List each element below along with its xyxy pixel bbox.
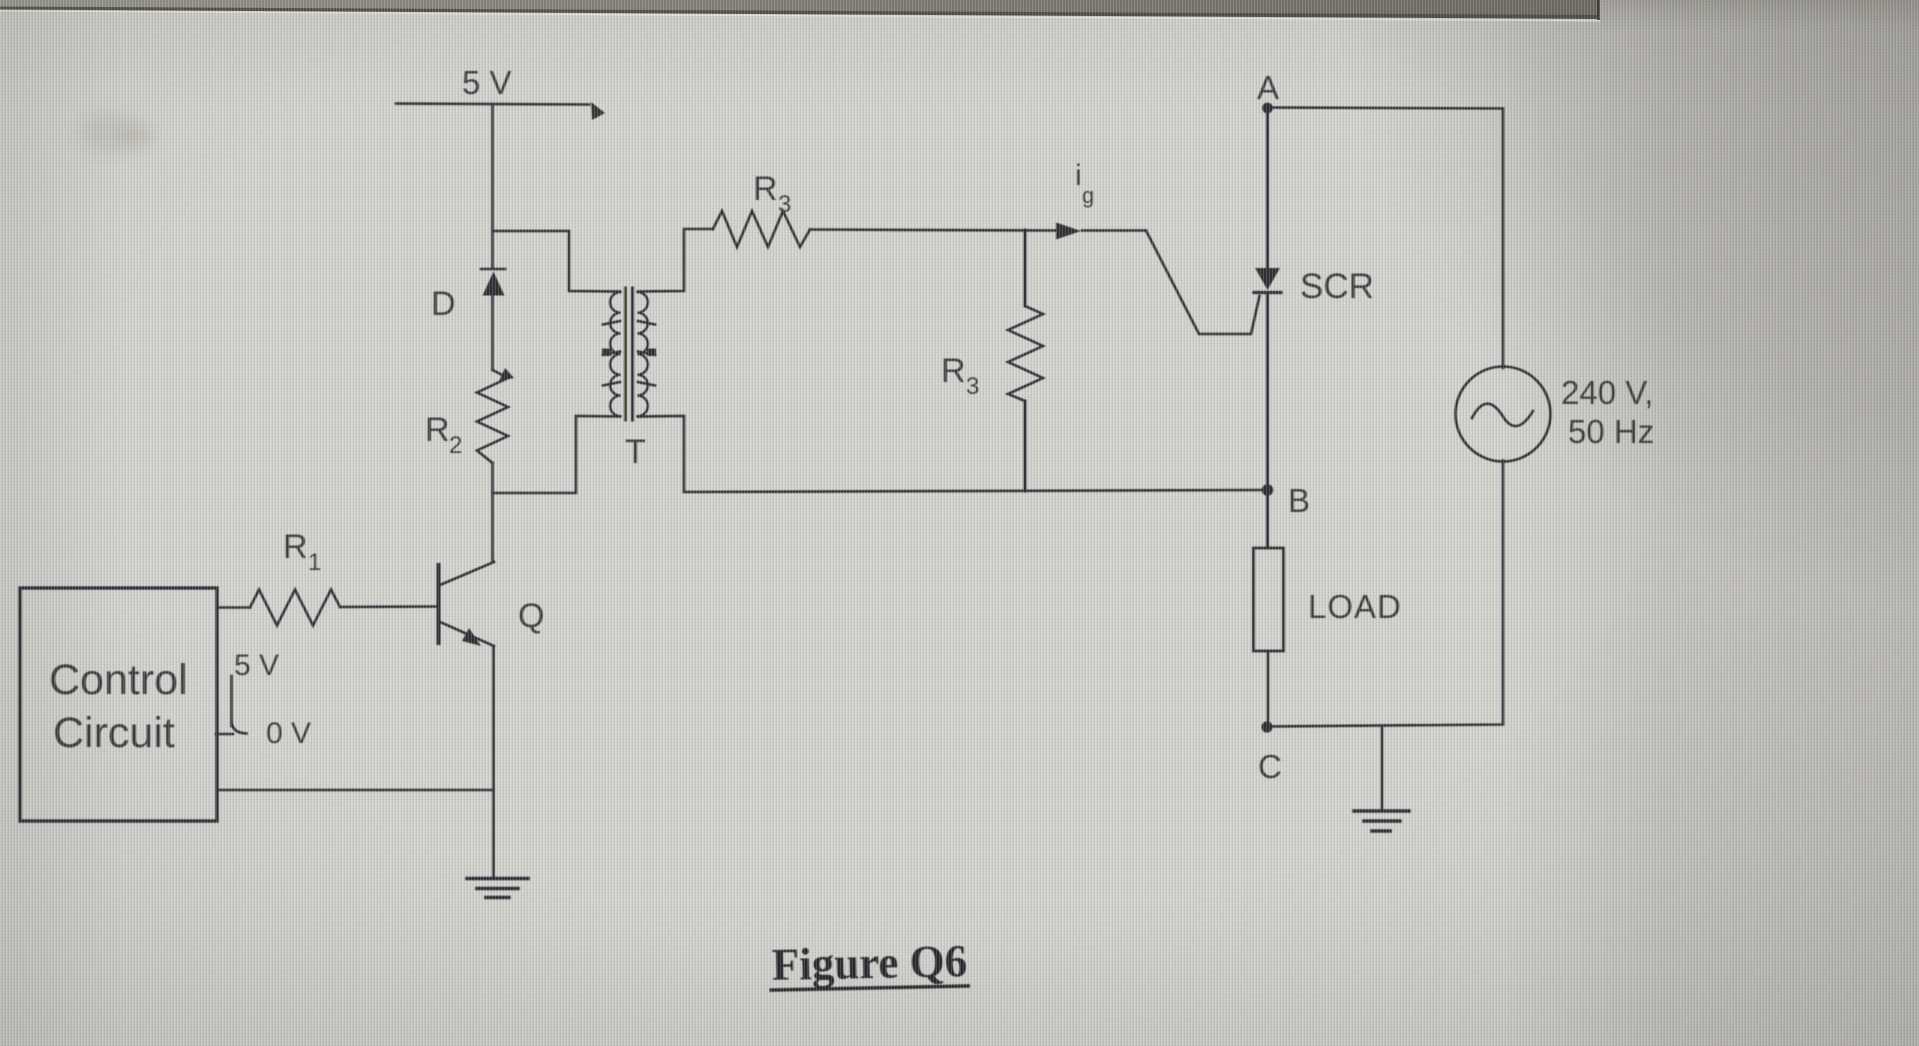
wire: source down and bottom rail to node C bbox=[1267, 461, 1503, 727]
svg-text:A: A bbox=[1257, 69, 1279, 106]
AC source 240V 50Hz bbox=[1456, 367, 1655, 462]
wire: transformer primary bottom return bbox=[493, 416, 621, 493]
svg-text:LOAD: LOAD bbox=[1308, 588, 1402, 625]
wire: secondary bottom to node B (bottom rail of gate circuit) bbox=[638, 416, 1262, 492]
wire: secondary top to R3 bbox=[638, 229, 713, 292]
svg-text:Q: Q bbox=[518, 597, 544, 635]
core bbox=[624, 288, 627, 420]
resistor R1 bbox=[217, 528, 437, 626]
wire: emitter down and along box bottom bbox=[217, 646, 494, 790]
waveform glyph 5V/0V bbox=[216, 649, 311, 750]
secondary winding bbox=[638, 292, 648, 416]
svg-text:C: C bbox=[1258, 748, 1282, 785]
node A bbox=[1257, 69, 1279, 113]
wire: top rail A to right side bbox=[1268, 108, 1504, 109]
wire: arrow to gate bend bbox=[1082, 229, 1146, 232]
5V supply rail bbox=[396, 64, 589, 105]
node B bbox=[1262, 482, 1310, 519]
resistor R3 (series) bbox=[713, 170, 810, 247]
wire: main vertical from 5V rail bbox=[491, 104, 494, 268]
svg-text:5 V: 5 V bbox=[234, 649, 279, 682]
wire: ground stub (left) bbox=[492, 790, 495, 878]
svg-text:1: 1 bbox=[308, 549, 321, 576]
svg-text:g: g bbox=[1082, 183, 1094, 208]
primary winding bbox=[610, 292, 620, 416]
wire: R3 to gate arrow bbox=[810, 230, 1058, 231]
wire: R2 down to transistor collector corner (junction at y=493) bbox=[491, 463, 494, 562]
wire: SCR anode / cathode vertical bbox=[1266, 108, 1269, 268]
caption Figure Q6 bbox=[770, 936, 968, 990]
current ig arrow bbox=[1056, 159, 1094, 240]
node C bbox=[1258, 721, 1282, 785]
svg-text:2: 2 bbox=[449, 432, 462, 459]
svg-text:3: 3 bbox=[966, 373, 979, 400]
svg-text:5 V: 5 V bbox=[462, 64, 512, 101]
svg-text:B: B bbox=[1288, 482, 1310, 519]
svg-text:3: 3 bbox=[778, 191, 791, 218]
LOAD bbox=[1254, 548, 1402, 651]
resistor R3 (shunt) bbox=[941, 230, 1043, 491]
svg-text:Control: Control bbox=[49, 656, 188, 704]
wire: right vertical to source bbox=[1502, 109, 1505, 369]
SCR bbox=[1146, 231, 1374, 335]
svg-text:R: R bbox=[753, 170, 778, 208]
svg-text:Figure Q6: Figure Q6 bbox=[771, 936, 967, 990]
transformer T bbox=[602, 288, 656, 471]
wire: LOAD to node C bbox=[1267, 651, 1270, 727]
svg-text:T: T bbox=[625, 433, 646, 471]
wire: diode to R2 bbox=[491, 295, 494, 370]
top bar (window edge) bbox=[0, 0, 1919, 30]
svg-text:i: i bbox=[1075, 159, 1082, 192]
svg-text:R: R bbox=[283, 528, 308, 566]
ground (left) bbox=[467, 879, 528, 898]
faint stain top-left bbox=[78, 113, 144, 153]
svg-text:Circuit: Circuit bbox=[53, 709, 175, 757]
svg-text:50 Hz: 50 Hz bbox=[1568, 413, 1654, 450]
wire: branch to transformer primary top bbox=[493, 231, 621, 292]
svg-text:SCR: SCR bbox=[1300, 267, 1374, 306]
resistor R2 bbox=[425, 368, 514, 463]
control circuit box bbox=[20, 588, 217, 821]
svg-text:D: D bbox=[431, 285, 456, 323]
svg-text:240 V,: 240 V, bbox=[1561, 374, 1653, 411]
diode D bbox=[431, 269, 505, 323]
transistor Q bbox=[439, 562, 545, 646]
svg-text:R: R bbox=[941, 352, 966, 390]
svg-text:R: R bbox=[425, 411, 450, 449]
svg-text:0 V: 0 V bbox=[266, 717, 311, 750]
cursor arrow at rail end bbox=[591, 102, 605, 120]
ground (right) bbox=[1354, 811, 1409, 831]
wire: ground stub (right) bbox=[1381, 726, 1384, 810]
right darker region (outside page) bbox=[1500, 0, 1919, 1046]
